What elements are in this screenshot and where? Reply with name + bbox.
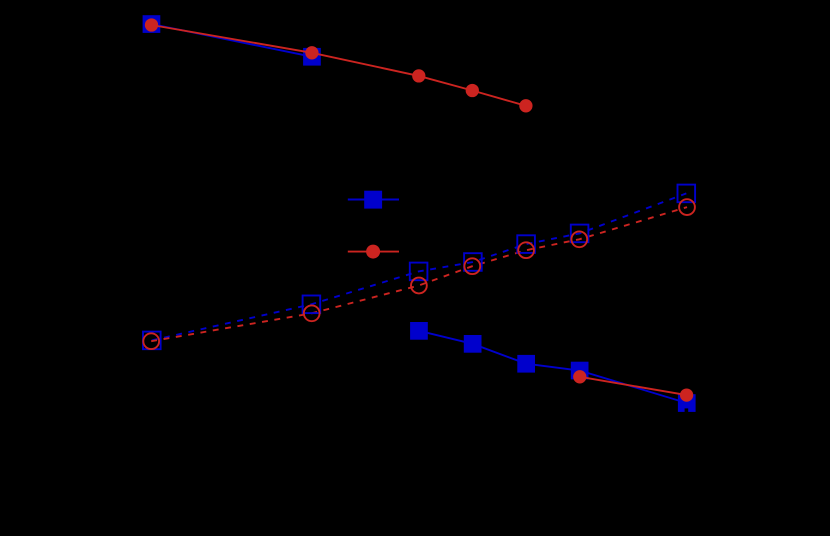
legend entry 2: red line + filled circle (348, 245, 399, 259)
red solid line segment A (top) (152, 25, 526, 106)
red solid line segment B (bottom) (580, 377, 687, 395)
red open circle markers (143, 199, 695, 349)
black tick notch over last blue square (685, 408, 689, 412)
blue dashed line (open squares series) (152, 193, 687, 340)
red filled circle markers (145, 18, 693, 401)
blue solid line segment A (top) (151, 24, 312, 57)
blue filled square markers (143, 15, 696, 412)
blue open square markers (143, 185, 695, 350)
red dashed line (open circles series) (151, 207, 687, 341)
blue solid line segment B (bottom) (419, 331, 687, 403)
legend entry 1: blue line + filled square (348, 191, 399, 209)
